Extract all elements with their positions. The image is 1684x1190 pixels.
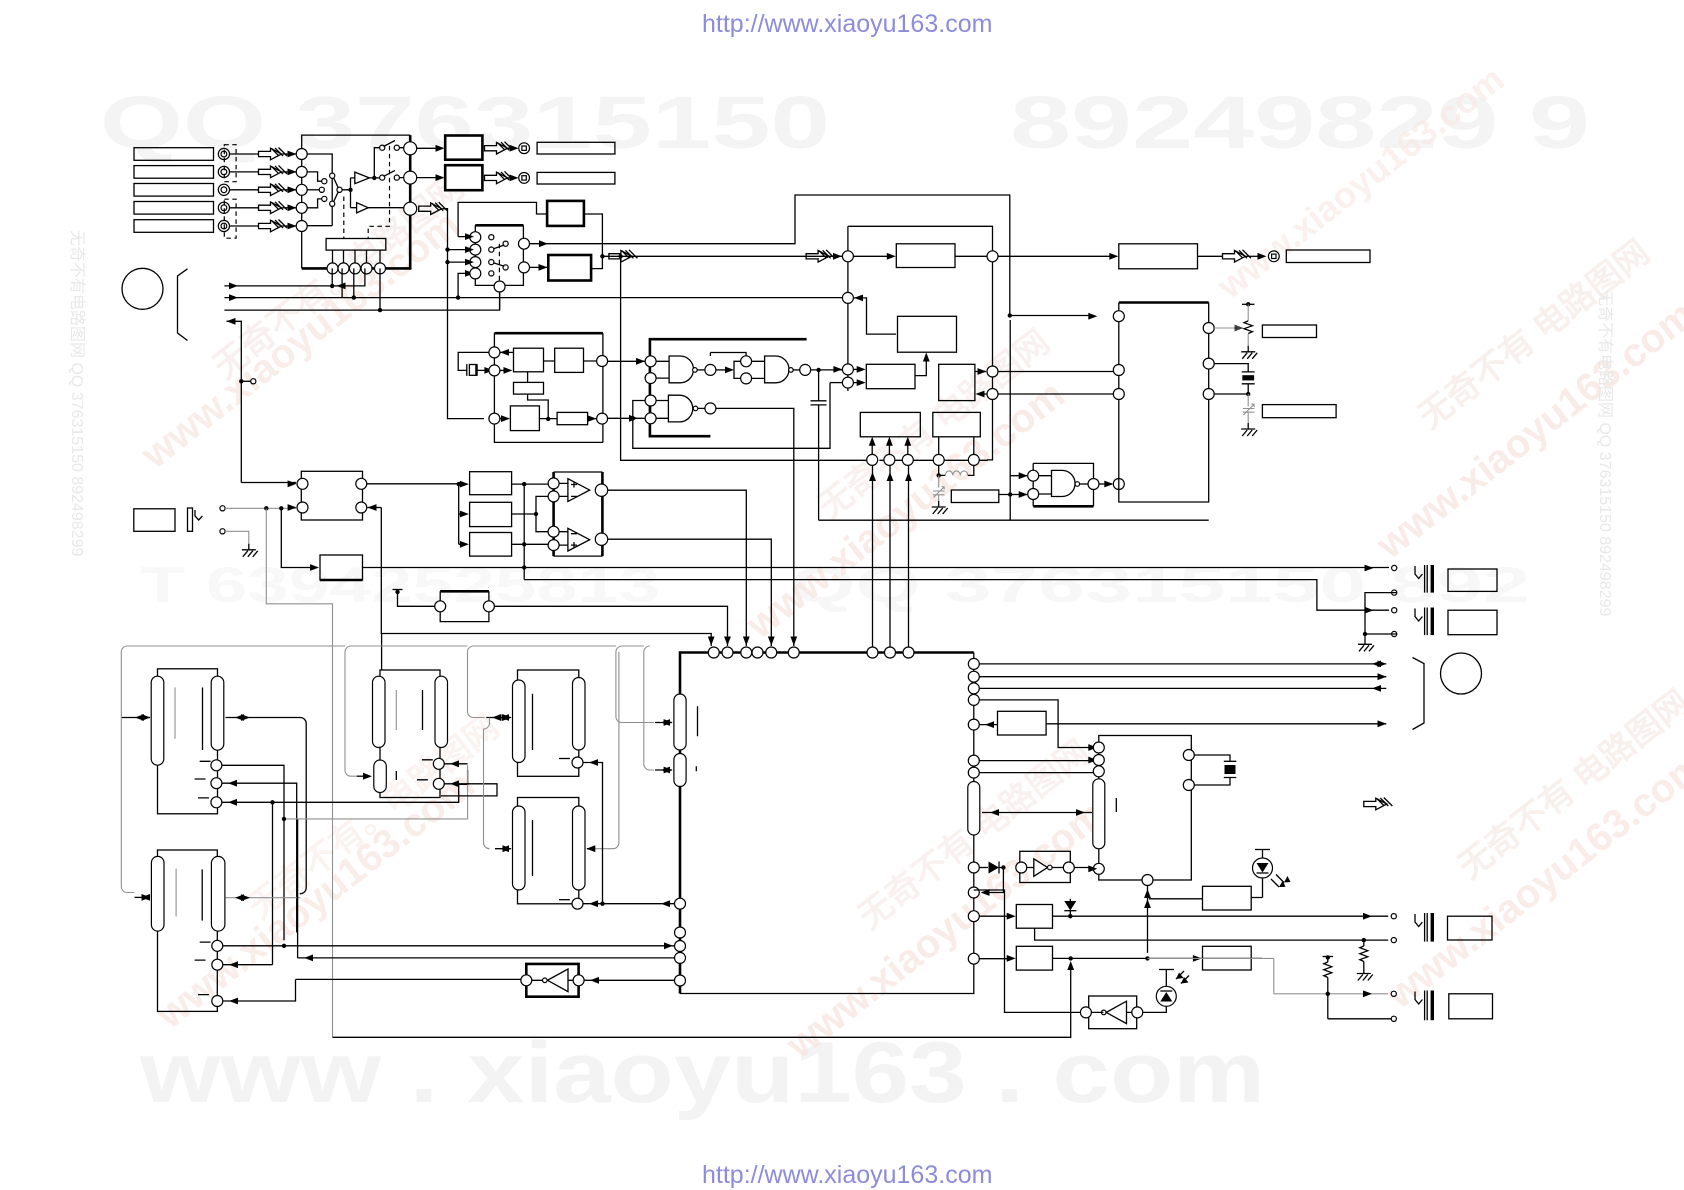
delay block DL (bold top) (435, 591, 495, 621)
rect RB3 (1203, 946, 1252, 970)
junction circles into R_mid (811, 364, 866, 388)
inductor L1 (937, 465, 974, 477)
wire pin to RB1 to headphone jack line (979, 913, 1388, 920)
wire D1 junction down to pin (981, 868, 1004, 896)
wire delay to IC pin2 (494, 606, 730, 646)
opamp1 (548, 478, 608, 502)
wire U1 pin2 to amp2 (417, 177, 438, 179)
rect F2 big (898, 316, 957, 352)
head group H2 (bottom-left) (151, 850, 225, 1011)
wire IC pin to H5 (583, 900, 675, 907)
wire osc out1 to NAND1 (608, 360, 645, 362)
gray top loop horizontal (121, 646, 650, 652)
filter stack rect S2 (470, 502, 512, 526)
wire mode out1 long right (530, 195, 1098, 320)
H2 right double arrow wire (226, 894, 301, 901)
crystal X1 (458, 352, 493, 376)
osc rect C link wires (528, 372, 549, 419)
H5 pin circle (559, 898, 583, 909)
head group H1 (top-left) (151, 669, 224, 814)
wire RB2 right path down to jack2 (1148, 958, 1389, 997)
input label boxes J1-J5 (134, 148, 214, 233)
DSP block frame (1099, 736, 1192, 881)
rect F1 (y256 row) (896, 244, 955, 268)
rect R4 (860, 412, 920, 436)
resistor R_hp1 (1357, 938, 1373, 981)
NAND gate G2 (latch) (710, 353, 810, 384)
U1 control stubs to bottom pins (333, 250, 381, 263)
mode switch output pins (494, 238, 529, 292)
trimmer cap CT2 (1241, 394, 1257, 436)
chevron + mini jack + label row2 (485, 171, 615, 184)
REC jack symbol (188, 506, 226, 534)
NAND-R block frame (1033, 463, 1093, 506)
input selector block U1 frame (302, 135, 411, 268)
mode switch contacts (489, 235, 509, 283)
U1 dashed gang links (344, 146, 390, 239)
osc in pin wire (500, 418, 504, 420)
NAND gate G3 (608, 395, 716, 424)
wire into selector pin4 from x381 vertical (368, 504, 715, 646)
label rect VR1 (1262, 325, 1316, 338)
gray drop to IC capsule2 (644, 652, 673, 773)
osc rect E (557, 412, 588, 424)
wire y256 through F1 (853, 251, 998, 262)
wire DSP->INV2 (974, 890, 1081, 1012)
svg-text:T 63942525813: T 63942525813 (140, 557, 660, 613)
arrows up into R4 (869, 437, 911, 455)
stack to opamp wires (512, 482, 548, 547)
rect RD1 (998, 711, 1047, 735)
rect R5 (933, 412, 981, 436)
head group H5 (mid-right lower) (513, 798, 586, 904)
filter stack rect S1 (470, 472, 512, 495)
long bus y580 to jack2 (524, 580, 1389, 614)
gray line down to bottom bus (266, 508, 332, 1037)
DSP bottom pin (1142, 875, 1153, 886)
chevron + mini jack + label row1 (485, 142, 615, 154)
chevron on U1 pin3 output (419, 202, 484, 418)
NAND gate G1 (645, 356, 716, 384)
motor circle M1 (122, 268, 163, 309)
R5 stubs to bus (939, 437, 974, 455)
+B supply tick (393, 590, 435, 607)
H2 pin wires (223, 819, 675, 1004)
resistor R_hp2 (1323, 955, 1334, 1019)
H1 pin wires (222, 765, 468, 964)
rect F3 square (939, 364, 975, 400)
mode switch wire from top loop (458, 202, 547, 240)
osc rect B (555, 348, 584, 372)
headphone jack pair bottom-right (1328, 913, 1493, 1021)
H5/H4 left arrows vertical (484, 714, 512, 852)
IC pin4 route to DSP pin1 (979, 700, 1097, 751)
inverter INV2 (1080, 996, 1142, 1029)
big circle right (motor2) (1441, 653, 1482, 694)
U10 right capsule (968, 782, 980, 836)
osc pins left (489, 347, 514, 424)
U1 buffer amp B (357, 203, 369, 213)
REC label box (134, 509, 175, 532)
U10 top pins (708, 647, 914, 658)
wire to rec amp rect (281, 508, 319, 571)
head group H3 (middle) (373, 670, 448, 798)
rec amp rect (bold bottom) (320, 555, 363, 580)
three bus verticals into top pins 7-9 (869, 465, 912, 647)
stub line4 with arrow (227, 318, 256, 483)
block2 right pins (1203, 323, 1214, 400)
H2 left frame wire from top loop (121, 652, 150, 901)
dashed group box around jacks 4-5 (224, 199, 236, 238)
wire block2 to F3 (y394) (976, 389, 1119, 400)
svg-text:QQ 376315150 892: QQ 376315150 892 (790, 557, 1530, 613)
dashed group box around jacks 1-2 (224, 145, 236, 182)
inverter INV1 (bias) (521, 964, 675, 997)
trimmer capacitor CT1 (932, 475, 948, 514)
wire bus line2 into left edge (454, 249, 456, 251)
watermark pink diagonals (133, 58, 1684, 1068)
wires A-B and B-out (544, 360, 597, 362)
osc rect D (510, 406, 539, 431)
wire R_mid out up into F2 (915, 357, 926, 376)
U1 buffer B wire to output pin3 (368, 207, 405, 209)
LED1 (1253, 850, 1291, 898)
U1 output switch row2 (374, 170, 404, 180)
potentiometer VR1 (1214, 302, 1257, 359)
U10 left pins lower (675, 898, 686, 986)
rect R102 (bold) bottom (548, 255, 591, 281)
osc out pin2 (597, 413, 608, 424)
svg-text:http://www.xiaoyu163.com: http://www.xiaoyu163.com (702, 1161, 992, 1189)
wires pins6-7 to DSP (979, 757, 1097, 773)
wire pin5-RD1 and long out (979, 720, 1386, 728)
H2 pin circles (195, 940, 223, 1006)
junction circle y298 (842, 292, 896, 334)
osc rect A (514, 348, 544, 372)
RB1 bottom stub + y940 line (1035, 928, 1389, 940)
block2 frame (1119, 303, 1209, 503)
U10 left capsule pin2 (674, 754, 686, 787)
U1 right output pins (404, 142, 417, 215)
rec selector block (297, 471, 367, 520)
chevron + minijack + label after F4 (1198, 250, 1371, 263)
wire pin to RB2 and y958 line (979, 955, 1147, 962)
output amp block bold rect row2 (445, 165, 482, 190)
standalone chevron (to other sheet) (1364, 798, 1387, 810)
IC U10 frame (680, 653, 974, 994)
wire F1 out to F4 (998, 255, 1113, 257)
mode switch frame (475, 224, 523, 227)
filter stack rect S3 (470, 533, 512, 557)
bus line1 from U1 bottom (224, 268, 365, 289)
IC right pin lines 1-3 long (979, 661, 1386, 692)
bus line2 long to mode switch (224, 268, 843, 301)
crystal X2 (1214, 364, 1255, 397)
gray y819 line (284, 765, 468, 819)
U1 bottom pins (327, 263, 386, 274)
bracket right (1413, 658, 1425, 730)
wire y448 line (633, 383, 830, 449)
U1 buffer amp A (355, 172, 370, 184)
line-out jack pair mid-right (1358, 565, 1497, 651)
wire R101 out joins y256 node (584, 214, 603, 269)
U1 output switch row1 (369, 141, 404, 181)
capsule-capsule double arrow (982, 809, 1092, 816)
mode switch bottom pole wire (499, 292, 501, 310)
wire y256 line with chevrons to frame (602, 250, 853, 262)
rect R101 (bold) top (547, 201, 584, 226)
rect F4 (1119, 244, 1198, 269)
osc out pin1 (597, 356, 608, 367)
REC jack ground (225, 531, 258, 557)
U10 capsule inner ticks (696, 706, 697, 771)
wire from jack rows vertical into selector (241, 480, 296, 487)
gray loop drop to IC capsule1 (616, 652, 673, 726)
label rect X2 (1262, 405, 1336, 418)
U10 left capsule pin1 (674, 694, 686, 750)
NAND latch frame (bold) (650, 339, 807, 436)
bus line3 (224, 268, 499, 312)
gray drop to head5 right capsule (586, 652, 619, 852)
gray loop drop to head4 (468, 652, 511, 721)
U1 internal wiring (307, 154, 332, 226)
mode switch input arrows (445, 246, 474, 265)
wire selector to filter stack (367, 483, 464, 485)
frame bus vertical x848 (848, 226, 993, 460)
H1 right wire with double arrow, curving down (226, 714, 307, 894)
NAND-R gate (1028, 470, 1099, 499)
DSP left pins (1093, 742, 1104, 874)
opamp2 (548, 526, 608, 551)
U1 control rectangle (326, 239, 386, 251)
REC jack wire to selector (225, 504, 297, 511)
H4 pin wire to H5 via x602 (583, 759, 603, 904)
head group H4 (mid-right upper) (513, 670, 586, 776)
rect R6 small (951, 490, 999, 503)
svg-text:www . xiaoyu163 . com: www . xiaoyu163 . com (139, 1025, 1265, 1121)
H3 left arrow from gray loop (345, 652, 372, 780)
opamp block frame (554, 472, 603, 556)
H1 left double arrow (121, 714, 150, 721)
RCA jacks CN1-CN5 (218, 148, 229, 231)
brace bracket left (178, 269, 188, 341)
wire y460 NAND frame bottom bus (621, 256, 987, 460)
diode D2 (1064, 899, 1076, 919)
rect LED1 driver (1203, 886, 1252, 910)
capacitor C_f (811, 370, 827, 520)
wire y520 long line (819, 519, 1209, 521)
rect RB2 (1016, 946, 1052, 970)
osc rect C small (514, 382, 544, 394)
DSP right pins (1183, 750, 1194, 791)
opamp outputs to IC pins (608, 490, 775, 646)
svg-text:http://www.xiaoyu163.com: http://www.xiaoyu163.com (702, 10, 992, 38)
H3 pin wires (441, 760, 497, 796)
block2 left pins (1113, 311, 1124, 400)
U1 left pin circles (296, 149, 307, 232)
H1 pin circles (195, 760, 222, 808)
DSP left capsule (1093, 779, 1105, 849)
long bus y567 (363, 484, 1390, 579)
mode switch input pins (470, 232, 481, 279)
LED2 (1143, 970, 1189, 1013)
bottom bus to y958 (333, 961, 1075, 1037)
U1 switch contacts (319, 173, 342, 206)
input wires with chevron arrows into block U1 (230, 148, 297, 232)
bus junction circles y460 (867, 454, 980, 465)
rect R_mid (866, 364, 915, 388)
diode D1 (979, 862, 1005, 874)
crystal X3 (1194, 755, 1236, 785)
F3 out to pin circle (975, 366, 1119, 377)
buffer B3 frame (1016, 851, 1075, 882)
oscillator block frame (494, 333, 603, 442)
svg-text:无奇不有电路图网 QQ 376315150 892498: 无奇不有电路图网 QQ 376315150 892498299 (1596, 290, 1614, 617)
H3 pin circles (417, 758, 444, 789)
U10 right pins (968, 658, 979, 964)
wire LED1 rect loop (1144, 886, 1262, 961)
rect RB1 (1016, 905, 1052, 929)
svg-text:无奇不有电路图网 QQ 376315150 892498: 无奇不有电路图网 QQ 376315150 892498299 (68, 230, 86, 557)
output amp block bold rect row1 (445, 136, 482, 160)
DSP inner tick (1115, 798, 1117, 812)
osc D to E wire (539, 418, 596, 420)
wire NAND-R out to block2 (1099, 483, 1112, 485)
wire U1 pin1 to amp1 (417, 147, 438, 149)
U1 pole wire to buffers (342, 178, 357, 208)
wire R6 to NAND-R inputs (999, 320, 1028, 520)
wire G3 out to IC pin6 vertical (716, 408, 794, 646)
H3 top edge wire to IC pin1 area (381, 634, 383, 671)
wire mode out2 into R102 (530, 266, 549, 268)
wire B3 to DSP pin (1074, 867, 1092, 869)
H4 pin circle (559, 757, 583, 768)
stack feed wires (457, 481, 469, 548)
